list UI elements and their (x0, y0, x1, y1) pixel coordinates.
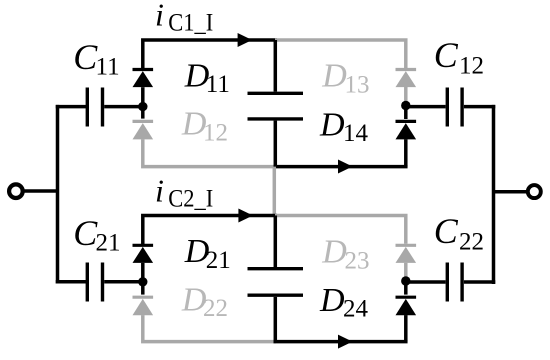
diode D24 (396, 297, 417, 315)
wire: C12 right lead to right bus (464, 105, 495, 109)
svg-text:C: C (73, 213, 98, 253)
diode D11 (133, 70, 154, 88)
wire: C11 right lead to node A (104, 105, 143, 109)
svg-text:23: 23 (345, 247, 370, 274)
label D14 (319, 106, 369, 147)
wire: node D stub to D24 (404, 281, 408, 295)
capacitor (center, cell 2) (248, 269, 304, 296)
wire: C21 left lead (56, 280, 88, 284)
capacitor C22 (447, 263, 462, 302)
wire: D13 anode stub to node C (gray) (404, 87, 408, 101)
label D21 (184, 233, 231, 274)
output terminal (right port) (528, 185, 541, 198)
capacitor C21 (87, 263, 102, 302)
diode D13 (gray) (396, 70, 417, 88)
svg-text:12: 12 (203, 119, 228, 146)
input terminal (left port) (9, 184, 23, 198)
wire: node D to C22 (408, 280, 446, 284)
svg-text:C2_I: C2_I (168, 185, 213, 212)
svg-text:21: 21 (206, 247, 231, 274)
svg-text:11: 11 (96, 54, 120, 81)
svg-text:21: 21 (96, 229, 121, 256)
wire: center cap cell1 top lead (274, 40, 278, 92)
svg-text:i: i (155, 0, 164, 33)
label D11 (184, 57, 230, 98)
wire: left vertical bus (56, 105, 60, 284)
current arrow on mid rail (338, 160, 353, 174)
svg-text:i: i (155, 172, 164, 208)
svg-text:12: 12 (459, 53, 484, 80)
wire: gray link between cells (mid rail to rail 3) (273, 167, 277, 216)
svg-text:D: D (319, 282, 345, 319)
wire: D24 anode down to bottom rail (404, 315, 408, 342)
label C12 (434, 35, 484, 80)
diode D12 (gray) (133, 121, 154, 139)
wire: C21 right lead to node B (104, 280, 143, 284)
wire: D11 anode to node A and stub to D12 (141, 87, 145, 118)
svg-text:24: 24 (343, 296, 369, 323)
current arrow i_C2_I (238, 209, 253, 223)
wire: D12 anode down to mid rail, gray mid-rail left section (143, 139, 276, 166)
svg-text:13: 13 (345, 71, 370, 98)
svg-text:C: C (434, 211, 459, 251)
svg-text:D: D (319, 106, 345, 143)
capacitor C11 (87, 88, 102, 127)
diode D22 (gray) (133, 297, 154, 315)
svg-text:D: D (321, 58, 347, 95)
label i_C2_I (155, 172, 213, 212)
label D23 (gray) (321, 234, 369, 275)
svg-text:22: 22 (203, 295, 228, 322)
wire: right bus to output terminal (494, 190, 527, 194)
svg-text:C: C (73, 37, 98, 77)
svg-text:D: D (321, 234, 347, 271)
node A (junction C11/D11/D12) (138, 102, 147, 111)
wire: bottom rail black section (274, 340, 408, 344)
label D22 (gray) (181, 282, 228, 323)
wire: C11 left lead (56, 105, 88, 109)
label i_C1_I (155, 0, 213, 36)
wire: D23 anode stub to node D (gray) (404, 263, 408, 277)
label D24 (319, 282, 369, 323)
wire: D11 cathode up to top rail, top rail black section (143, 40, 277, 70)
wire: D21 cathode up to rail 3, rail 3 black section (143, 216, 277, 246)
wire: D21 anode to node B and stub to D22 (141, 263, 145, 295)
wire: mid rail black section (274, 165, 408, 169)
wire: rail 3 gray section down to D23 (275, 216, 406, 244)
diode D14 (396, 121, 417, 139)
wire: center cap cell2 top lead (274, 216, 278, 268)
svg-text:C: C (434, 35, 459, 75)
capacitor C12 (447, 88, 462, 127)
svg-text:22: 22 (459, 229, 484, 256)
diode D23 (gray) (396, 245, 417, 263)
wire: D22 anode down to bottom rail, gray bottom-rail left section (143, 315, 276, 342)
svg-text:11: 11 (206, 71, 230, 98)
wire: center cap cell1 bottom lead (274, 121, 278, 167)
label C22 (434, 211, 484, 256)
svg-text:14: 14 (343, 120, 369, 147)
label D13 (gray) (321, 58, 369, 99)
wire: center cap cell2 bottom lead (274, 297, 278, 342)
wire: D14 anode down to mid rail (404, 139, 408, 166)
node B (junction C21/D21/D22) (138, 277, 147, 286)
node C (junction D13/D14/C12) (401, 101, 410, 110)
wire: C22 right lead to right bus (464, 280, 495, 284)
current arrow on bottom rail (338, 335, 353, 349)
wire: node C stub to D14 (404, 106, 408, 120)
wire: right vertical bus (492, 105, 496, 284)
current arrow i_C1_I (238, 33, 253, 47)
capacitor (center, cell 1) (248, 93, 304, 119)
label D12 (gray) (181, 106, 228, 147)
node D (junction D23/D24/C22) (401, 276, 410, 285)
diode D21 (133, 245, 154, 263)
wire: node C to C12 (408, 105, 446, 109)
svg-text:C1_I: C1_I (168, 9, 213, 36)
wire: top rail gray section down to D13 (275, 40, 406, 68)
wire: left terminal to left bus (24, 189, 57, 193)
